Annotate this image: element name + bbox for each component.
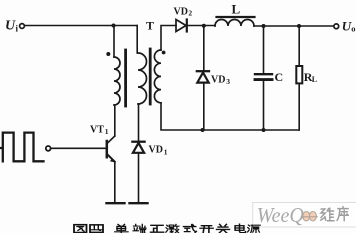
svg-text:VD: VD	[211, 75, 225, 86]
transformer T secondary winding	[154, 50, 161, 103]
wire load bottom lead	[298, 83, 300, 130]
char 源	[248, 225, 261, 233]
node A junction dot	[112, 24, 116, 28]
VD1 end stub	[130, 202, 148, 204]
wire VD3 anode to bottom rail	[203, 83, 205, 131]
diode VD2	[176, 20, 186, 32]
char 电	[235, 224, 245, 233]
wire demag winding top lead	[136, 26, 138, 54]
watermark WeeQoo维库	[257, 203, 349, 227]
svg-text:3: 3	[226, 77, 230, 86]
svg-text:2: 2	[188, 9, 192, 18]
watermark char 库	[337, 206, 349, 221]
square wave symbol	[0, 133, 44, 162]
transformer T primary winding	[114, 57, 120, 105]
svg-text:L: L	[312, 75, 317, 84]
svg-text:U: U	[5, 19, 16, 34]
char 式	[184, 224, 197, 232]
wire capacitor bottom lead	[263, 81, 265, 130]
transformer T polarity dot secondary	[162, 51, 166, 55]
char 开	[200, 226, 213, 233]
node E junction dot VD3 bottom	[201, 128, 205, 132]
resistor RL	[296, 66, 302, 83]
transformer T core bar right	[149, 49, 152, 104]
wire primary top lead	[113, 26, 115, 58]
wire emitter lead	[114, 162, 116, 202]
wire VD3 top lead	[203, 26, 205, 71]
watermark box	[253, 203, 356, 228]
node Uo output terminal	[334, 24, 339, 29]
transistor VT1 emitter stroke	[108, 155, 115, 162]
node Ui input terminal	[20, 24, 25, 29]
diode VD1	[132, 141, 144, 143]
svg-text:1: 1	[105, 127, 109, 136]
char 四	[90, 225, 103, 232]
diode VD3	[197, 70, 209, 72]
node B junction dot VD3 branch	[202, 24, 206, 28]
transformer T polarity dot primary	[106, 52, 110, 56]
transformer T demag winding	[138, 53, 147, 104]
node D junction dot load branch	[297, 24, 301, 28]
svg-text:C: C	[275, 70, 284, 84]
wire base lead	[51, 147, 106, 149]
inductor L	[215, 20, 254, 27]
inductor L core bar	[217, 16, 255, 18]
watermark oo ellipses	[303, 212, 310, 221]
wire VD2 cathode to inductor	[187, 25, 215, 27]
transistor VT1 base bar	[106, 141, 109, 157]
node C junction dot capacitor branch	[262, 24, 266, 28]
wire inductor to output terminal	[254, 25, 334, 27]
wire collector lead from primary	[114, 105, 116, 136]
svg-text:VD: VD	[149, 145, 163, 156]
transistor VT1 collector stroke	[108, 136, 115, 143]
labels (Latin)	[5, 2, 355, 157]
char 激	[166, 224, 179, 233]
wire VD1 anode down	[138, 153, 140, 202]
wire capacitor top lead	[263, 26, 265, 73]
svg-text:L: L	[232, 2, 241, 17]
transistor VT1 emitter arrowhead	[110, 158, 115, 162]
wire bottom rail	[161, 103, 299, 130]
svg-text:o: o	[351, 24, 355, 34]
svg-text:VT: VT	[90, 125, 104, 136]
wire secondary top lead to VD2	[161, 26, 176, 51]
char 端	[133, 224, 146, 233]
svg-text:1: 1	[164, 147, 168, 156]
char 正	[151, 225, 164, 232]
watermark oo link line	[302, 216, 318, 218]
svg-text:VD: VD	[174, 7, 188, 18]
svg-text:T: T	[146, 19, 154, 33]
watermark char 维	[320, 208, 334, 221]
char 单	[115, 224, 128, 233]
wire demag bottom lead to VD1	[138, 104, 140, 141]
capacitor C	[255, 73, 272, 75]
char 关	[217, 224, 230, 233]
svg-text:WeeQ: WeeQ	[257, 203, 304, 227]
caption 图四 单端正激式开关电源 (drawn strokes)	[74, 224, 260, 233]
wire load top lead	[298, 26, 300, 66]
node base drive terminal	[46, 146, 51, 151]
transformer T core bar left	[124, 50, 127, 106]
emitter end stub	[107, 202, 125, 204]
svg-text:i: i	[16, 24, 19, 34]
char 图	[74, 225, 87, 233]
node F junction dot capacitor bottom	[262, 128, 266, 132]
wire Ui to transformer primary	[25, 25, 138, 27]
